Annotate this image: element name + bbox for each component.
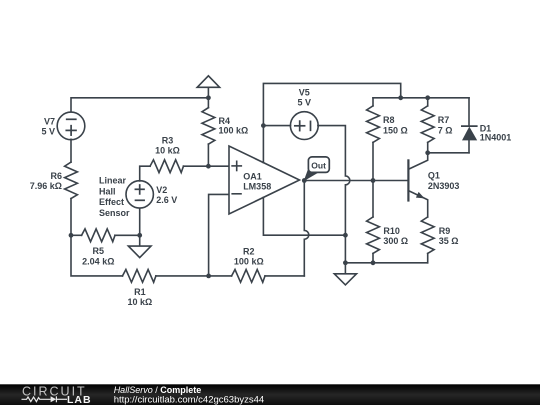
svg-text:Linear: Linear: [99, 176, 127, 186]
svg-text:35 Ω: 35 Ω: [439, 236, 459, 246]
svg-text:10 kΩ: 10 kΩ: [128, 297, 153, 307]
svg-text:2N3903: 2N3903: [428, 181, 460, 191]
svg-text:Out: Out: [311, 160, 326, 170]
junction at top rail left branch: [398, 95, 403, 100]
junction at R6 R5 node: [69, 233, 74, 238]
resistor R5: [71, 229, 140, 242]
resistor R3: [150, 160, 208, 173]
svg-text:7 Ω: 7 Ω: [438, 126, 453, 136]
bottom rail to ground: [345, 262, 427, 264]
svg-text:10 kΩ: 10 kΩ: [155, 146, 180, 156]
resistor R6: [65, 162, 78, 199]
ground under V2: [128, 235, 151, 257]
junction at R8 R10 base node: [371, 178, 376, 183]
svg-text:R10: R10: [383, 226, 400, 236]
junction at Q1 collector D1 anode: [425, 150, 430, 155]
svg-text:HallServo / Complete: HallServo / Complete: [114, 385, 202, 395]
op-amp OA1: [229, 146, 300, 214]
svg-text:R9: R9: [439, 226, 451, 236]
resistor R4: [202, 98, 215, 166]
svg-text:R5: R5: [93, 246, 105, 256]
junction at V2 ground node: [137, 233, 142, 238]
svg-text:2.04 kΩ: 2.04 kΩ: [82, 256, 114, 266]
svg-text:R1: R1: [134, 287, 146, 297]
svg-text:Q1: Q1: [428, 170, 440, 180]
svg-text:R7: R7: [438, 115, 450, 125]
power supply VCC triangle: [197, 76, 219, 98]
svg-text:R6: R6: [50, 171, 62, 181]
ground under supply column: [334, 263, 356, 285]
svg-text:Sensor: Sensor: [99, 208, 130, 218]
resistor R9: [421, 217, 434, 263]
svg-text:5 V: 5 V: [297, 98, 311, 108]
svg-text:300 Ω: 300 Ω: [383, 236, 408, 246]
svg-text:LAB: LAB: [67, 394, 92, 405]
svg-text:V7: V7: [44, 116, 55, 126]
resistor R10: [367, 181, 380, 263]
wire op-amp minus input down to R1/R2 node: [209, 194, 229, 276]
svg-text:LM358: LM358: [243, 181, 271, 191]
resistor R8: [367, 98, 380, 181]
voltage source V5: [290, 112, 318, 140]
resistor R1: [123, 270, 209, 283]
svg-text:5 V: 5 V: [41, 126, 55, 136]
feedback wire down with hop over supply wire: [304, 181, 308, 276]
wire V2 bottom to ground node: [139, 208, 141, 235]
svg-text:Effect: Effect: [99, 197, 124, 207]
op-amp bottom supply wire: [263, 197, 345, 235]
wire V2 top to R3: [140, 166, 150, 181]
diode D1: [462, 98, 477, 153]
junction at R1 R2 minus input node: [206, 274, 211, 279]
wire V5 right down with hop over output wire: [318, 126, 350, 263]
junction at V5 plus terminal: [261, 123, 266, 128]
resistor R2: [209, 270, 305, 283]
svg-text:Hall: Hall: [99, 187, 116, 197]
svg-text:OA1: OA1: [243, 172, 262, 182]
junction at R10 bottom: [371, 260, 376, 265]
junction at ground rail left: [343, 260, 348, 265]
junction at VCC R4 top: [206, 95, 211, 100]
svg-text:R2: R2: [243, 246, 255, 256]
svg-text:100 kΩ: 100 kΩ: [219, 126, 249, 136]
junction node Out at op-amp output: [302, 178, 307, 183]
svg-text:http://circuitlab.com/c42gc63b: http://circuitlab.com/c42gc63byzs44: [114, 395, 265, 405]
svg-text:V2: V2: [156, 185, 167, 195]
resistor R7: [421, 98, 434, 153]
wire R4 node to op-amp plus input: [208, 165, 229, 167]
voltage source V7: [57, 112, 85, 140]
wire top-left from V7 to R4 column: [71, 98, 208, 112]
transistor Q1: [408, 153, 427, 217]
svg-text:150 Ω: 150 Ω: [383, 126, 408, 136]
footer bar: [0, 384, 540, 405]
svg-text:R3: R3: [162, 136, 174, 146]
wire V7 to R6: [70, 139, 72, 162]
svg-text:2.6 V: 2.6 V: [156, 195, 177, 205]
svg-text:7.96 kΩ: 7.96 kΩ: [30, 181, 62, 191]
svg-text:100 kΩ: 100 kΩ: [234, 256, 264, 266]
voltage source V2 (hall sensor): [126, 181, 153, 208]
junction at V5 minus and op-amp supply: [343, 233, 348, 238]
svg-text:R8: R8: [383, 115, 395, 125]
svg-text:1N4001: 1N4001: [480, 132, 512, 142]
wire D1 to collector node: [428, 152, 469, 154]
output wire to transistor base: [304, 180, 408, 182]
op-amp top supply wire to rail: [263, 83, 400, 162]
junction at R7 top: [425, 95, 430, 100]
svg-text:V5: V5: [299, 88, 310, 98]
junction at op-amp plus input node: [206, 164, 211, 169]
out flag: [304, 157, 330, 181]
rail for R8 R7 D1: [373, 97, 469, 99]
wire V5 left to op-amp supply: [263, 125, 290, 127]
wire R6 to R5 node and down to R1 row: [71, 199, 123, 276]
circuitlab logo glyph: [22, 396, 68, 402]
